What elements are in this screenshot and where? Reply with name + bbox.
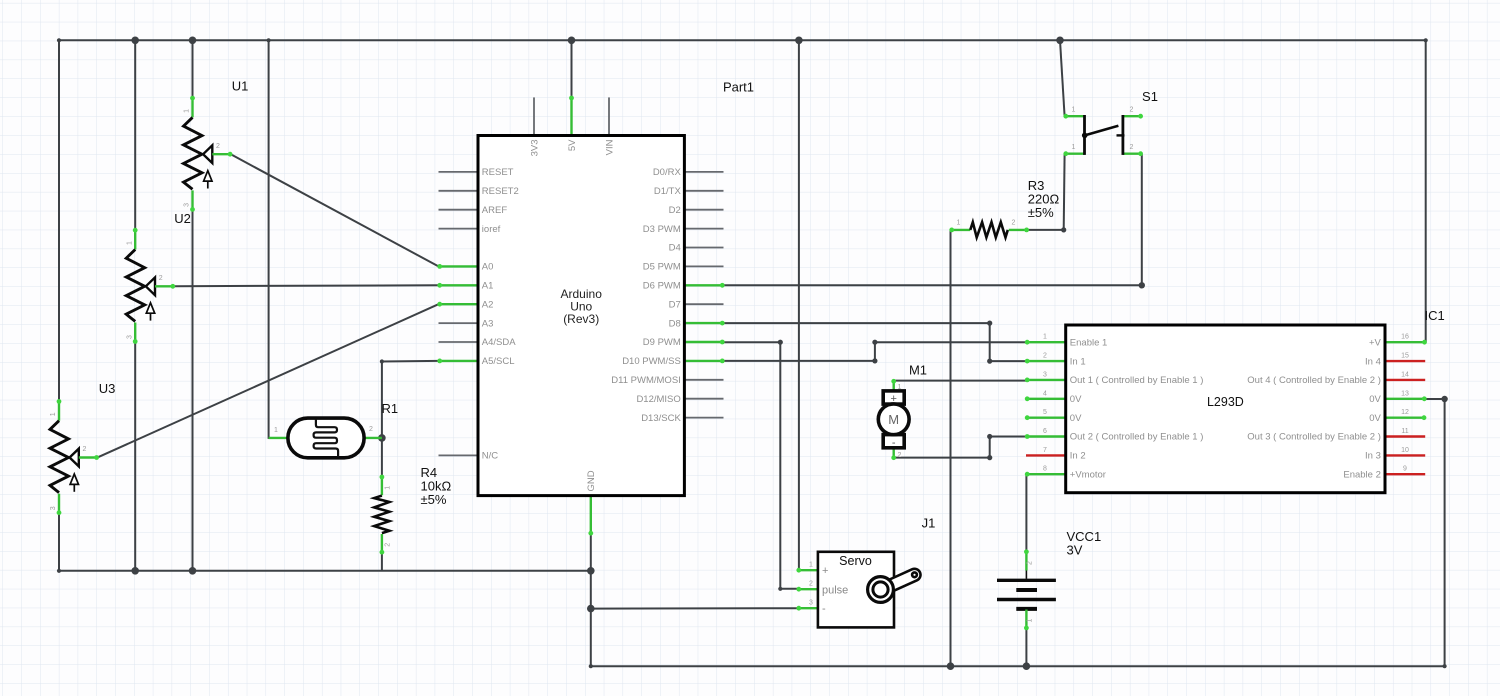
switch S1 xyxy=(1063,107,1143,157)
svg-text:D5 PWM: D5 PWM xyxy=(643,262,681,273)
svg-text:2: 2 xyxy=(809,581,813,588)
wire GND junction to servo minus xyxy=(591,607,798,609)
svg-text:D2: D2 xyxy=(669,205,681,216)
battery VCC1 xyxy=(997,549,1056,630)
svg-text:+: + xyxy=(890,393,896,405)
svg-text:2: 2 xyxy=(1026,561,1033,565)
pin 2 In 1 xyxy=(1026,360,1066,362)
wire rail down to R1 pin1 xyxy=(269,40,270,438)
svg-text:3V: 3V xyxy=(1067,543,1083,558)
node rail corner right xyxy=(1424,38,1428,42)
svg-text:ioref: ioref xyxy=(482,224,501,235)
pin D8 xyxy=(684,322,723,324)
pin A3 xyxy=(439,322,479,324)
svg-text:8: 8 xyxy=(1043,466,1047,473)
wire bottom-left ground rail xyxy=(59,570,591,572)
svg-text:Out 3 ( Controlled by Enable 2: Out 3 ( Controlled by Enable 2 ) xyxy=(1247,432,1381,443)
svg-text:R1: R1 xyxy=(382,401,399,416)
svg-text:Out 2 ( Controlled by Enable 1: Out 2 ( Controlled by Enable 1 ) xyxy=(1070,432,1204,443)
svg-text:U1: U1 xyxy=(232,79,249,94)
svg-text:2: 2 xyxy=(1130,107,1134,114)
pin RESET2 xyxy=(439,190,479,192)
wire U1 pin3 to ground rail xyxy=(192,211,194,571)
svg-text:A3: A3 xyxy=(482,318,494,329)
motor M1 xyxy=(878,379,909,460)
svg-text:N/C: N/C xyxy=(482,451,499,462)
svg-text:D11 PWM/MOSI: D11 PWM/MOSI xyxy=(611,375,681,386)
pin AREF xyxy=(439,209,479,211)
svg-text:2: 2 xyxy=(369,426,373,433)
node ground rail U2 xyxy=(131,567,139,575)
pin 15 In 4 xyxy=(1385,360,1425,362)
pin 3 Out 1 xyxy=(1026,379,1066,381)
node pin13 bend xyxy=(1441,396,1447,402)
pin 8 +Vmotor xyxy=(1026,473,1066,475)
wire R3 pin2 to switch junction xyxy=(1028,229,1064,231)
pin D13/SCK xyxy=(684,417,723,419)
svg-text:2: 2 xyxy=(1130,144,1134,151)
svg-text:RESET: RESET xyxy=(482,167,514,178)
svg-text:A0: A0 xyxy=(482,262,494,273)
svg-text:Part1: Part1 xyxy=(723,80,754,95)
svg-text:D1/TX: D1/TX xyxy=(654,186,682,197)
pin 13 0V xyxy=(1385,398,1426,400)
svg-text:11: 11 xyxy=(1401,428,1408,435)
svg-text:15: 15 xyxy=(1401,353,1409,360)
node rail corner left xyxy=(57,38,61,42)
svg-text:+: + xyxy=(822,565,828,577)
potentiometer U1 xyxy=(184,96,233,212)
svg-text:9: 9 xyxy=(1403,466,1407,473)
pin 16 +V xyxy=(1385,341,1426,343)
pin GND xyxy=(590,496,592,535)
wire Arduino A5/SCL to R1/R4 node xyxy=(382,361,439,476)
pin 6 Out 2 xyxy=(1026,435,1066,437)
wire Arduino GND down xyxy=(590,534,592,666)
svg-text:A5/SCL: A5/SCL xyxy=(482,356,515,367)
pin D1/TX xyxy=(684,190,723,192)
wire Arduino D9 to servo pulse xyxy=(724,342,799,589)
node ground rail bottom left corner xyxy=(589,664,593,668)
node rail-5V xyxy=(568,37,576,45)
wire rail to U1 pin1 xyxy=(192,40,194,97)
svg-text:-: - xyxy=(822,603,826,615)
node A5-R1-R4 xyxy=(378,434,386,442)
svg-text:D0/RX: D0/RX xyxy=(653,167,682,178)
svg-text:S1: S1 xyxy=(1142,89,1158,104)
svg-text:5: 5 xyxy=(1043,409,1047,416)
svg-text:1: 1 xyxy=(385,486,392,490)
pin D11 PWM/MOSI xyxy=(684,379,723,381)
wire U2 pin2 to Arduino A1 xyxy=(175,284,439,287)
photoresistor R1 xyxy=(269,418,382,458)
pin D12/MISO xyxy=(684,398,723,400)
wire R3 pin1 down to ground rail xyxy=(950,230,952,666)
svg-text:D12/MISO: D12/MISO xyxy=(636,394,680,405)
svg-text:1: 1 xyxy=(274,427,278,434)
svg-text:2: 2 xyxy=(216,143,220,150)
wire rail right end down to L293D pin16 xyxy=(1425,40,1427,342)
svg-text:7: 7 xyxy=(1043,447,1047,454)
svg-text:D4: D4 xyxy=(669,243,681,254)
svg-text:pulse: pulse xyxy=(822,585,848,597)
svg-text:3: 3 xyxy=(809,600,813,607)
svg-text:Out 1 ( Controlled by Enable 1: Out 1 ( Controlled by Enable 1 ) xyxy=(1070,375,1204,386)
node R3-switch junction xyxy=(1061,227,1066,232)
pin D9 PWM xyxy=(684,341,723,343)
svg-text:±5%: ±5% xyxy=(1028,205,1054,220)
pin 10 In 3 xyxy=(1385,454,1425,456)
svg-text:Out 4 ( Controlled by Enable 2: Out 4 ( Controlled by Enable 2 ) xyxy=(1247,375,1381,386)
pin D4 xyxy=(684,247,723,249)
pin 3V3 xyxy=(533,97,535,135)
svg-text:1: 1 xyxy=(809,562,813,569)
wire motor minus to L293D Out2 xyxy=(894,437,1027,458)
wire U1 pin2 diagonal to Arduino A0 xyxy=(231,154,439,266)
svg-text:RESET2: RESET2 xyxy=(482,186,519,197)
svg-text:13: 13 xyxy=(1401,390,1409,397)
L293D body xyxy=(1066,325,1385,493)
svg-text:In 4: In 4 xyxy=(1365,356,1381,367)
pin 5 0V xyxy=(1026,417,1066,419)
svg-text:VIN: VIN xyxy=(604,139,615,155)
svg-text:16: 16 xyxy=(1401,334,1409,341)
wire L293D pin13 0V to right ground drop xyxy=(1426,399,1445,666)
pin 4 0V xyxy=(1026,398,1066,400)
pin A0 xyxy=(439,265,479,267)
node ground rail battery xyxy=(1023,662,1031,670)
node rail-servo xyxy=(795,37,803,45)
svg-text:D6 PWM: D6 PWM xyxy=(643,281,681,292)
node D8 bends xyxy=(987,321,992,326)
svg-text:L293D: L293D xyxy=(1207,395,1244,409)
svg-text:(Rev3): (Rev3) xyxy=(563,312,599,326)
node D9 bend low xyxy=(778,587,782,591)
svg-text:U2: U2 xyxy=(174,211,191,226)
wire U2 pin3 to ground rail xyxy=(134,343,136,571)
op-amp U? Arduino Uno block xyxy=(437,96,724,536)
wire R4 pin2 to ground rail xyxy=(381,553,383,571)
svg-text:D9 PWM: D9 PWM xyxy=(643,337,681,348)
pin D5 PWM xyxy=(684,265,723,267)
svg-text:1: 1 xyxy=(1072,107,1076,114)
resistor R3 xyxy=(949,219,1029,237)
svg-text:1: 1 xyxy=(1043,334,1047,341)
wire rail to U2 pin1 xyxy=(134,40,136,229)
svg-text:-: - xyxy=(892,437,896,449)
pin RESET xyxy=(439,171,479,173)
wire L293D pin8 Vmotor down to battery plus xyxy=(1025,474,1027,551)
svg-text:5V: 5V xyxy=(567,139,578,151)
pin A5/SCL xyxy=(439,360,479,362)
svg-text:14: 14 xyxy=(1401,371,1409,378)
svg-text:6: 6 xyxy=(1043,428,1047,435)
svg-text:0V: 0V xyxy=(1369,413,1381,424)
svg-text:IC1: IC1 xyxy=(1425,308,1445,323)
wire top 5V power rail xyxy=(59,39,1426,41)
node D9 bend xyxy=(778,340,783,345)
svg-text:10: 10 xyxy=(1401,447,1409,454)
node ground rail U1 xyxy=(189,567,197,575)
svg-text:3: 3 xyxy=(126,335,133,339)
resistor R4 xyxy=(374,475,392,555)
svg-text:+V: +V xyxy=(1369,337,1382,348)
svg-text:12: 12 xyxy=(1401,409,1409,416)
svg-text:2: 2 xyxy=(83,446,87,453)
wire switch pin2 bottom down to D6 node xyxy=(1141,154,1143,286)
svg-text:2: 2 xyxy=(898,452,902,459)
node rail-switch xyxy=(1056,37,1064,45)
svg-text:1: 1 xyxy=(184,109,191,113)
wire rail to 5V pin xyxy=(571,40,573,97)
svg-text:D8: D8 xyxy=(669,318,681,329)
svg-text:2: 2 xyxy=(385,543,392,547)
node rail-U1 xyxy=(189,37,197,45)
node switch-D6 junction xyxy=(1139,282,1145,288)
svg-text:4: 4 xyxy=(1043,390,1047,397)
pin N/C xyxy=(439,454,479,456)
pin 1 Enable 1 xyxy=(1026,341,1066,343)
wire battery minus to ground rail xyxy=(1025,629,1027,667)
svg-text:0V: 0V xyxy=(1369,394,1381,405)
svg-text:In 3: In 3 xyxy=(1365,451,1381,462)
svg-text:In 1: In 1 xyxy=(1070,356,1086,367)
pin D0/RX xyxy=(684,171,723,173)
wire Arduino D10 to L293D Enable1 xyxy=(724,342,1027,361)
svg-text:GND: GND xyxy=(586,470,597,491)
node ground rail right corner xyxy=(1443,664,1447,668)
svg-text:2: 2 xyxy=(159,275,163,282)
pin 14 Out 4 xyxy=(1385,379,1425,381)
svg-text:D3 PWM: D3 PWM xyxy=(643,224,681,235)
pin D2 xyxy=(684,209,723,211)
svg-text:M: M xyxy=(888,412,899,427)
svg-text:1: 1 xyxy=(126,241,133,245)
svg-text:1: 1 xyxy=(1026,619,1033,623)
svg-text:2: 2 xyxy=(1043,353,1047,360)
wire U3 pin3 to bottom ground rail xyxy=(58,514,60,571)
svg-text:3: 3 xyxy=(50,506,57,510)
servo J1 xyxy=(796,552,917,628)
svg-text:Enable 1: Enable 1 xyxy=(1070,337,1108,348)
pin 11 Out 3 xyxy=(1385,435,1425,437)
svg-text:A4/SDA: A4/SDA xyxy=(482,337,516,348)
svg-text:3V3: 3V3 xyxy=(529,140,540,157)
pin VIN xyxy=(608,97,610,135)
node GND junction xyxy=(587,567,595,575)
svg-text:M1: M1 xyxy=(909,363,927,378)
svg-text:J1: J1 xyxy=(922,516,936,531)
svg-text:A1: A1 xyxy=(482,281,494,292)
Arduino body xyxy=(478,136,684,496)
svg-text:0V: 0V xyxy=(1070,394,1082,405)
svg-text:2: 2 xyxy=(1012,219,1016,226)
svg-text:1: 1 xyxy=(957,219,961,226)
wire bottom ground rail xyxy=(591,665,1445,667)
wire Arduino D6 to switch xyxy=(724,284,1142,286)
node rail-R1 xyxy=(267,38,271,42)
svg-text:A2: A2 xyxy=(482,299,494,310)
svg-text:AREF: AREF xyxy=(482,205,508,216)
pin 5V xyxy=(570,97,572,136)
node rail-U2 xyxy=(131,37,139,45)
svg-text:Enable 2: Enable 2 xyxy=(1343,469,1381,480)
svg-text:D13/SCK: D13/SCK xyxy=(641,413,681,424)
svg-text:Servo: Servo xyxy=(839,554,872,568)
node ground rail left end xyxy=(57,569,61,573)
wire switch pin1 bottom down to R3 junction xyxy=(1063,154,1066,230)
wire Arduino D8 to L293D In1 xyxy=(724,323,1027,361)
IC1 L293D block xyxy=(1025,325,1427,493)
svg-text:D7: D7 xyxy=(669,299,681,310)
wire left rail to U3 pin1 xyxy=(58,40,60,400)
pin 12 0V xyxy=(1385,417,1425,419)
svg-text:0V: 0V xyxy=(1070,413,1082,424)
svg-text:3: 3 xyxy=(184,203,191,207)
svg-text:1: 1 xyxy=(1072,144,1076,151)
svg-text:+Vmotor: +Vmotor xyxy=(1070,469,1106,480)
pin A4/SDA xyxy=(439,341,479,343)
node ground rail R3 xyxy=(947,662,955,670)
svg-text:1: 1 xyxy=(898,384,902,391)
node A5 bend xyxy=(380,359,384,363)
potentiometer U2 xyxy=(126,228,175,344)
pin ioref xyxy=(439,228,479,230)
wire rail to switch S1 pin1 top xyxy=(1060,40,1065,116)
wire U3 pin2 diagonal to Arduino A2 xyxy=(98,304,439,457)
svg-text:In 2: In 2 xyxy=(1070,451,1086,462)
node servo minus junction xyxy=(587,605,595,613)
wire rail down to servo plus xyxy=(798,40,800,570)
pin D6 PWM xyxy=(684,284,723,286)
pin A2 xyxy=(439,303,479,305)
pin D7 xyxy=(684,303,723,305)
wire motor plus to L293D Out1 xyxy=(894,380,1027,382)
pin 7 In 2 xyxy=(1026,454,1066,456)
pin D10 PWM/SS xyxy=(684,360,723,362)
potentiometer U3 xyxy=(50,399,99,515)
svg-text:U3: U3 xyxy=(99,381,116,396)
svg-text:1: 1 xyxy=(50,412,57,416)
svg-text:±5%: ±5% xyxy=(421,492,447,507)
pin A1 xyxy=(439,284,479,286)
pin 9 Enable 2 xyxy=(1385,473,1425,475)
svg-text:D10 PWM/SS: D10 PWM/SS xyxy=(622,356,681,367)
pin D3 PWM xyxy=(684,228,723,230)
node D10 bends xyxy=(872,358,877,363)
svg-text:3: 3 xyxy=(1043,371,1047,378)
node motor minus bends xyxy=(987,455,992,460)
